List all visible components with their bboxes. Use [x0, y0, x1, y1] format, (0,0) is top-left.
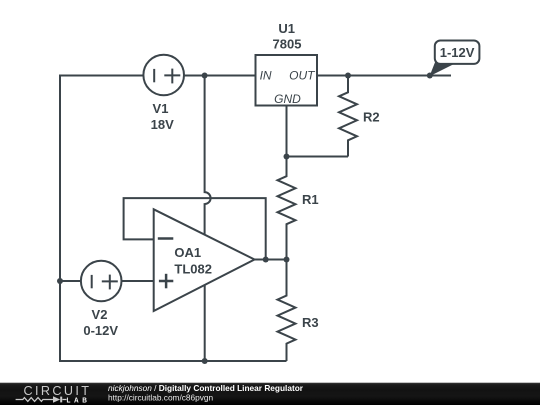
resistor R1 [278, 157, 319, 260]
svg-text:18V: 18V [151, 117, 174, 132]
footer CircuitLab logo [16, 383, 92, 404]
svg-text:U1: U1 [278, 21, 295, 36]
svg-text:TL082: TL082 [174, 262, 212, 277]
wire R2 bottom to GND node [287, 156, 349, 158]
node R1 / R3 divider [284, 257, 290, 263]
footer bar [0, 383, 540, 405]
wire U1 OUT to output stub [317, 75, 451, 77]
node U1 OUT / R2 junction [345, 73, 351, 79]
resistor R3 [278, 260, 319, 362]
wire V+ supply with hop over feedback [205, 76, 211, 235]
wire V2 left [60, 280, 81, 282]
node GND / R2 / R1 junction [284, 154, 290, 160]
node output flag anchor [427, 73, 433, 79]
wire left rail [59, 75, 61, 362]
node feedback tap [263, 257, 269, 263]
wire U1 GND drop [286, 106, 288, 157]
wire op-amp output to divider [255, 259, 287, 261]
footer credit text [108, 383, 304, 402]
svg-text:http://circuitlab.com/c86pvgn: http://circuitlab.com/c86pvgn [108, 392, 214, 402]
svg-text:OUT: OUT [289, 69, 316, 83]
svg-text:R3: R3 [302, 315, 319, 330]
wire bottom ground rail [59, 360, 287, 362]
svg-text:IN: IN [260, 69, 272, 83]
wire feedback loop to inverting input [124, 198, 266, 259]
wire V2 to non-inverting input [122, 280, 154, 282]
svg-text:R2: R2 [363, 110, 380, 125]
wire V1 left [60, 75, 144, 77]
resistor R2 [339, 76, 380, 157]
node V- / ground rail [202, 358, 208, 364]
svg-text:LAB: LAB [67, 395, 91, 404]
output flag 1-12V [430, 41, 480, 77]
svg-text:0-12V: 0-12V [83, 323, 118, 338]
voltage source V1 [143, 55, 184, 132]
svg-text:7805: 7805 [273, 37, 302, 52]
svg-text:GND: GND [274, 92, 301, 106]
svg-text:R1: R1 [302, 192, 319, 207]
voltage source V2 [81, 261, 122, 338]
node V1/U1/V+ junction [202, 73, 208, 79]
wire V1 to U1 IN [184, 75, 256, 77]
svg-text:V2: V2 [92, 307, 108, 322]
wire V- supply to ground rail [204, 286, 206, 362]
node V2 / left rail [57, 278, 63, 284]
svg-text:OA1: OA1 [174, 245, 201, 260]
svg-text:1-12V: 1-12V [440, 45, 475, 60]
regulator U1 7805 [256, 21, 318, 106]
op-amp OA1 TL082 [154, 209, 255, 311]
svg-text:V1: V1 [153, 101, 169, 116]
